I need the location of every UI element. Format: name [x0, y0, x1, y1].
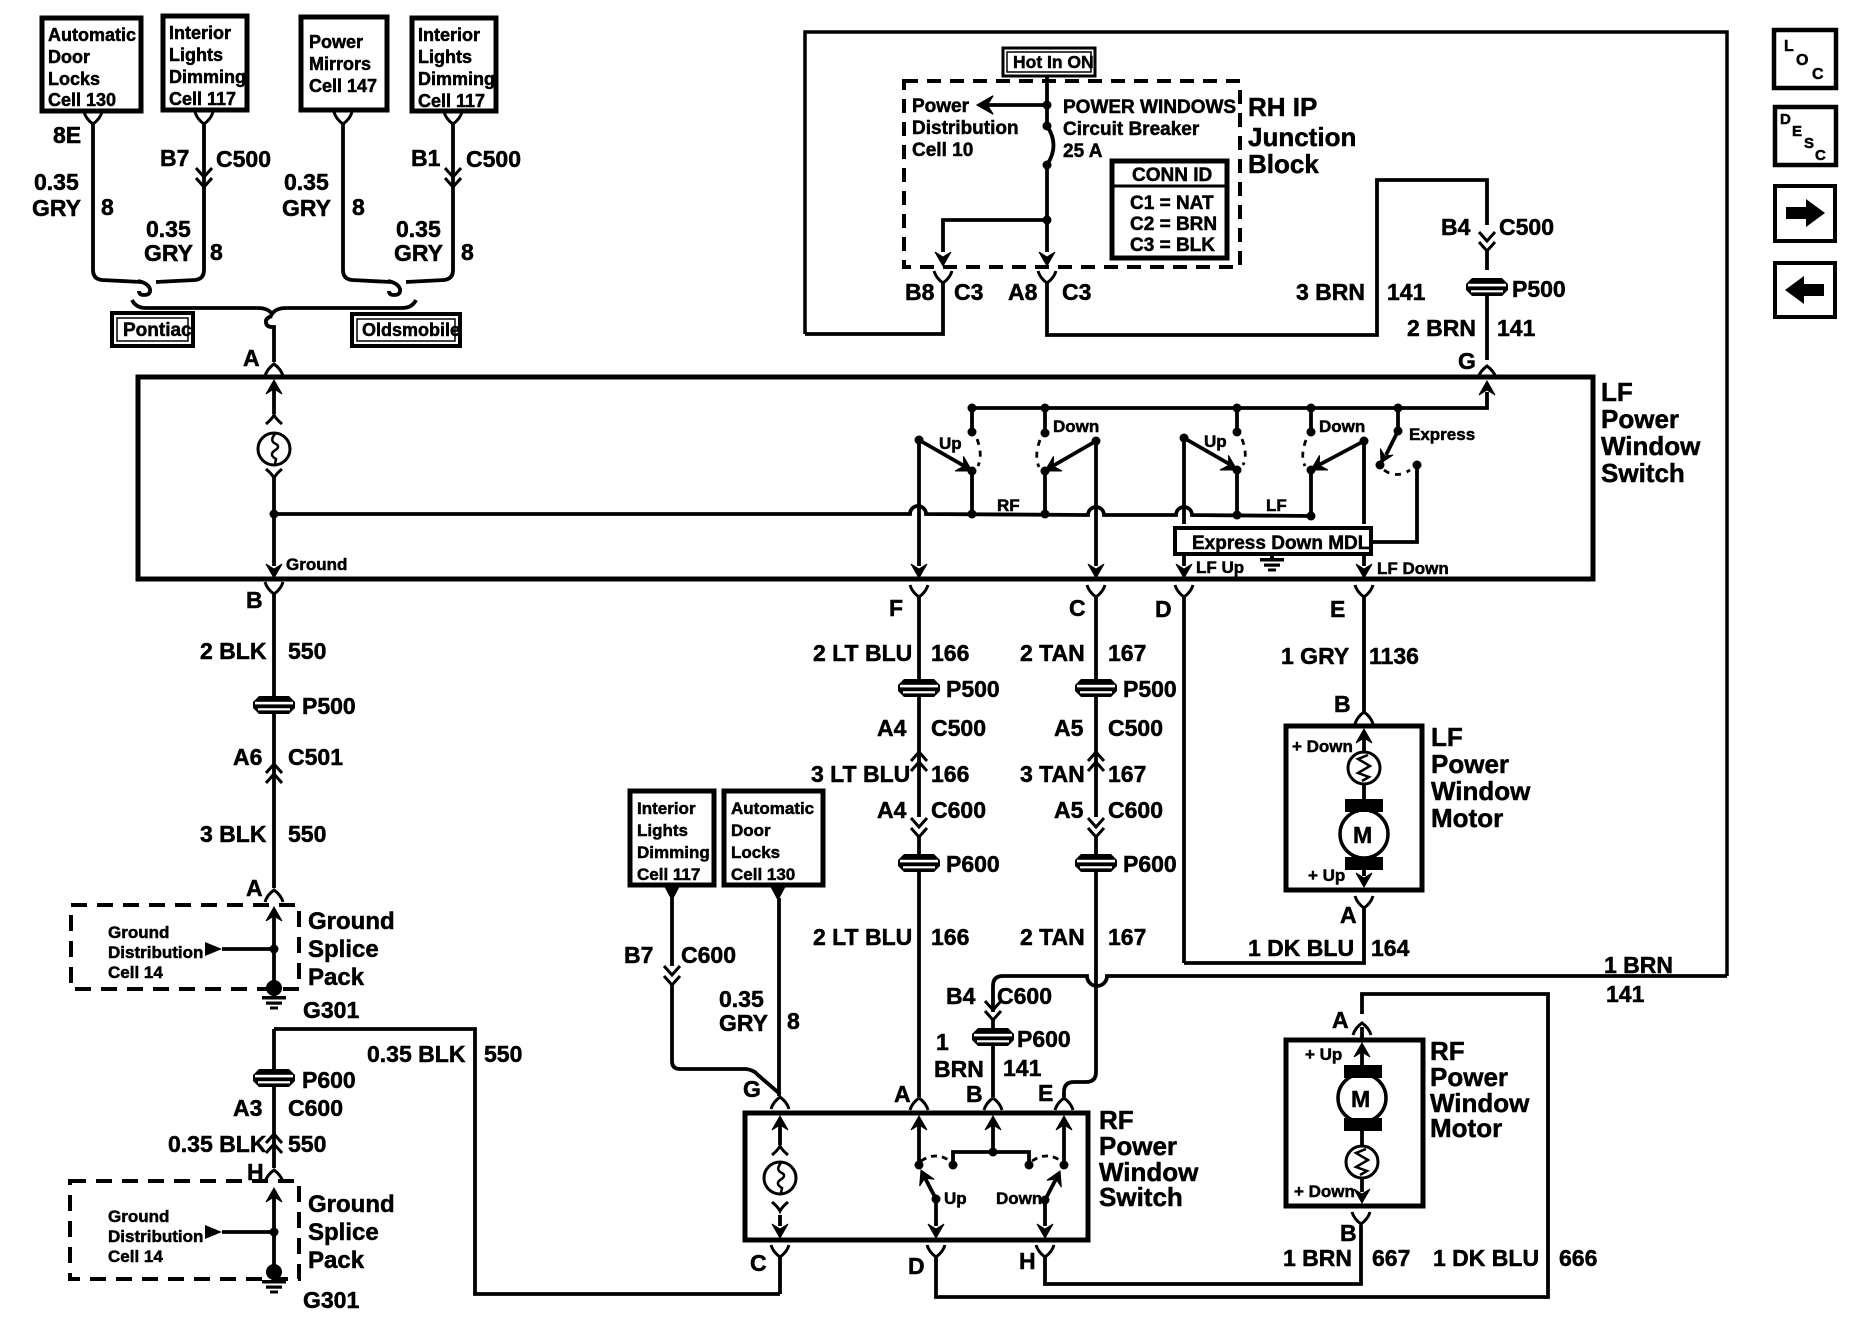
svg-text:B: B [966, 1081, 983, 1107]
svg-text:550: 550 [288, 638, 326, 664]
RF motor internals [1294, 1043, 1386, 1203]
pin B into RF switch [966, 1081, 1002, 1152]
wire: 8E 0.35 GRY 8 (from Automatic Door Locks) [32, 112, 141, 282]
svg-text:Interior: Interior [418, 25, 480, 45]
svg-text:2 LT BLU: 2 LT BLU [813, 640, 912, 666]
svg-text:0.35: 0.35 [34, 169, 79, 195]
svg-text:C600: C600 [288, 1095, 343, 1121]
LF motor internals [1292, 729, 1388, 887]
svg-text:B7: B7 [624, 942, 653, 968]
box: Interior Lights Dimming Cell 117 (left) [163, 16, 247, 110]
svg-text:C600: C600 [997, 983, 1052, 1009]
box: RF Power Window Motor [1286, 1036, 1530, 1206]
ground G301 (lower) [262, 1264, 359, 1313]
svg-text:Pack: Pack [308, 1247, 365, 1274]
splice P500 (C column) [1075, 676, 1177, 702]
svg-text:A: A [894, 1081, 911, 1107]
svg-text:P600: P600 [946, 851, 1000, 877]
connector A3 C600 [233, 1087, 343, 1153]
svg-text:0.35 BLK: 0.35 BLK [367, 1041, 466, 1067]
RF switch internal bar [949, 1148, 1034, 1170]
splice P600 (B column) [936, 1026, 1071, 1055]
svg-text:0.35: 0.35 [146, 216, 191, 242]
svg-text:Down: Down [1319, 417, 1365, 436]
svg-text:Ground: Ground [108, 1207, 169, 1226]
svg-text:167: 167 [1108, 924, 1146, 950]
ground wire + label inside LF switch [266, 510, 347, 579]
pin B below LF switch [246, 582, 283, 613]
icon: forward arrow button [1775, 186, 1835, 241]
splice P600 (C column) [1075, 851, 1177, 877]
pin A into RF switch [894, 1081, 928, 1170]
svg-text:S: S [1804, 135, 1814, 152]
svg-text:Dimming: Dimming [169, 67, 246, 87]
svg-text:Pontiac: Pontiac [123, 320, 192, 341]
svg-text:C: C [1815, 147, 1826, 164]
Express switch [1371, 404, 1475, 543]
svg-text:C600: C600 [1108, 797, 1163, 823]
box: Express Down MDL [1175, 528, 1371, 554]
svg-text:Lights: Lights [169, 45, 223, 65]
svg-text:A5: A5 [1054, 715, 1084, 741]
icon: DESC button [1775, 107, 1836, 165]
svg-text:Cell 117: Cell 117 [637, 865, 700, 884]
svg-text:0.35: 0.35 [284, 169, 329, 195]
svg-text:Interior: Interior [169, 23, 231, 43]
svg-text:C500: C500 [466, 146, 521, 172]
svg-text:+ Down: + Down [1292, 737, 1353, 756]
svg-text:C500: C500 [931, 715, 986, 741]
svg-text:O: O [1796, 52, 1808, 69]
svg-text:P600: P600 [302, 1067, 356, 1093]
svg-text:+ Up: + Up [1308, 866, 1345, 885]
svg-text:LF: LF [1266, 496, 1287, 515]
svg-text:Ground: Ground [286, 555, 347, 574]
svg-text:A: A [1332, 1007, 1349, 1033]
svg-text:Splice: Splice [308, 936, 379, 963]
svg-text:Up: Up [939, 434, 962, 453]
svg-text:G301: G301 [303, 997, 359, 1023]
svg-text:1 DK BLU: 1 DK BLU [1248, 935, 1354, 961]
svg-text:GRY: GRY [32, 195, 81, 221]
svg-text:A4: A4 [877, 715, 907, 741]
svg-text:B: B [1340, 1220, 1357, 1246]
wire: 3 LT BLU 166 [811, 753, 969, 817]
svg-text:F: F [889, 595, 903, 621]
dashed box: Ground Splice Pack 1 / Ground Distribution Cell 14 [71, 905, 299, 989]
RF switch Down contact [996, 1156, 1067, 1238]
wire: 3 BRN 141 from A8 [1047, 180, 1487, 335]
svg-text:+ Down: + Down [1294, 1182, 1355, 1201]
wire labels: 1 BRN 667 / 1 DK BLU 666 [1283, 1245, 1597, 1271]
svg-text:Circuit Breaker: Circuit Breaker [1063, 119, 1200, 140]
svg-text:667: 667 [1372, 1245, 1410, 1271]
svg-text:LF: LF [1601, 377, 1633, 407]
svg-text:Automatic: Automatic [731, 799, 814, 818]
svg-text:LF Down: LF Down [1377, 559, 1449, 578]
svg-text:1136: 1136 [1369, 643, 1419, 669]
pin A8 C3 [1008, 271, 1091, 305]
internal top bus of LF switch [972, 381, 1495, 408]
svg-text:P500: P500 [302, 693, 356, 719]
svg-text:P500: P500 [946, 676, 1000, 702]
svg-text:167: 167 [1108, 640, 1146, 666]
svg-text:G: G [1458, 348, 1476, 374]
lamp: illumination bulb LF switch [258, 433, 290, 566]
pin A below LF motor / wire 1 DK BLU 164 [1184, 896, 1410, 963]
svg-text:Oldsmobile: Oldsmobile [362, 320, 460, 340]
wire: 0.35 BLK 550 S-path from RF switch C [274, 1029, 780, 1294]
text: RF Power Window Switch [1099, 1105, 1199, 1212]
brace collecting Pontiac/Oldsmobile variants [132, 300, 416, 314]
wire: 2 LT BLU 166 (F column top) [813, 597, 969, 679]
svg-text:8: 8 [101, 194, 114, 220]
svg-text:164: 164 [1371, 935, 1410, 961]
svg-text:550: 550 [288, 821, 326, 847]
svg-text:3 LT BLU: 3 LT BLU [811, 761, 910, 787]
wire D column from LF switch to motor [1182, 597, 1186, 963]
text: Ground Splice Pack 2 [308, 1191, 395, 1274]
svg-text:Dimming: Dimming [418, 69, 495, 89]
box: Automatic Door Locks Cell 130 [42, 18, 141, 111]
svg-text:Cell 130: Cell 130 [731, 865, 795, 884]
box: LF Power Window Switch [138, 377, 1593, 579]
ground G301 (upper) [262, 980, 359, 1023]
pin D below RF switch [908, 994, 1548, 1297]
pin G into RF switch [743, 1076, 789, 1145]
svg-text:M: M [1351, 1086, 1370, 1112]
svg-text:C600: C600 [931, 797, 986, 823]
wire: 0.35 GRY 8 (from Automatic Door Locks middle) [719, 886, 800, 1096]
svg-text:C500: C500 [216, 146, 271, 172]
entry arrow A into switch [266, 380, 282, 424]
wire: 0.35 BLK 550 (lower) [168, 1131, 326, 1168]
svg-text:Distribution: Distribution [108, 1227, 203, 1246]
svg-text:D: D [1780, 111, 1791, 128]
pin C below RF switch [750, 1245, 789, 1294]
splice P500 (left column) [253, 693, 356, 719]
icon: LOC button [1774, 30, 1836, 88]
dashed box: Ground Splice Pack 2 / Ground Distribution Cell 14 [70, 1181, 299, 1279]
svg-text:B4: B4 [1441, 214, 1471, 240]
svg-text:P600: P600 [1017, 1026, 1071, 1052]
svg-text:Motor: Motor [1430, 1113, 1502, 1143]
svg-text:B: B [1334, 691, 1351, 717]
svg-text:CONN ID: CONN ID [1132, 165, 1212, 186]
svg-text:C: C [1812, 66, 1824, 83]
arrow to Power Distribution [977, 96, 1047, 114]
svg-text:Hot In ON: Hot In ON [1013, 52, 1094, 72]
svg-text:A: A [243, 345, 260, 371]
svg-text:C1 = NAT: C1 = NAT [1130, 193, 1214, 214]
svg-text:Switch: Switch [1601, 458, 1685, 488]
text: LF Power Window Switch [1601, 377, 1701, 488]
text: POWER WINDOWS Circuit Breaker 25 A [1063, 97, 1236, 162]
circuit breaker CB (25A) [1043, 76, 1054, 220]
svg-text:A: A [246, 875, 263, 901]
svg-text:0.35: 0.35 [396, 216, 441, 242]
label box: Pontiac [112, 313, 193, 346]
svg-text:D: D [1155, 596, 1172, 622]
svg-text:2 BLK: 2 BLK [200, 638, 267, 664]
svg-text:A: A [1340, 902, 1357, 928]
svg-text:H: H [1019, 1248, 1036, 1274]
svg-text:141: 141 [1497, 315, 1536, 341]
connector A4 C600 [877, 797, 986, 854]
text: RH IP Junction Block [1248, 92, 1356, 179]
connector A5 C500 [1054, 697, 1163, 771]
wire: 1 BRN 141 (B column) to RF switch B [934, 1046, 1042, 1097]
ground symbol under Express Down MDL [1260, 554, 1284, 572]
LF Up switch (LF switch internals) [1180, 404, 1246, 520]
pin D below LF switch [1155, 585, 1193, 622]
svg-text:Pack: Pack [308, 964, 365, 991]
lamp RF switch [764, 1146, 796, 1238]
svg-text:3 BRN: 3 BRN [1296, 279, 1365, 305]
svg-text:2 LT BLU: 2 LT BLU [813, 924, 912, 950]
svg-text:166: 166 [931, 640, 969, 666]
CONN ID table [1112, 161, 1227, 258]
svg-text:141: 141 [1003, 1055, 1042, 1081]
svg-text:167: 167 [1108, 761, 1146, 787]
ground bus inside LF switch with hops [274, 506, 1311, 516]
svg-text:B4: B4 [946, 983, 976, 1009]
svg-text:C501: C501 [288, 744, 343, 770]
svg-text:Cell 10: Cell 10 [912, 140, 973, 161]
svg-text:666: 666 [1559, 1245, 1597, 1271]
svg-text:G301: G301 [303, 1287, 359, 1313]
svg-text:E: E [1330, 596, 1345, 622]
box: Automatic Door Locks Cell 130 (middle) [724, 791, 823, 885]
svg-text:Up: Up [944, 1189, 967, 1208]
svg-text:2 BRN: 2 BRN [1407, 315, 1476, 341]
splice P600 (left column) [253, 1067, 356, 1093]
svg-text:C3: C3 [1062, 279, 1091, 305]
svg-text:P500: P500 [1512, 276, 1566, 302]
splice joint right pair [388, 281, 400, 295]
svg-text:BRN: BRN [934, 1056, 984, 1082]
svg-text:P500: P500 [1123, 676, 1177, 702]
svg-text:B7: B7 [160, 145, 189, 171]
label box: Oldsmobile [352, 314, 460, 346]
svg-text:8: 8 [352, 194, 365, 220]
text: Ground Splice Pack 1 [308, 908, 395, 991]
connector A4 C500 [877, 697, 986, 771]
svg-text:A8: A8 [1008, 279, 1038, 305]
wire: 0.35 GRY 8 (from Power Mirrors) [282, 112, 391, 282]
svg-text:550: 550 [288, 1131, 326, 1157]
svg-text:Cell 130: Cell 130 [48, 90, 116, 110]
svg-text:A6: A6 [233, 744, 262, 770]
svg-text:GRY: GRY [144, 240, 193, 266]
RF Up switch (LF switch internals) [915, 404, 981, 519]
connector B4 C500 [1441, 214, 1554, 270]
svg-text:B: B [246, 587, 263, 613]
wire: 2 BLK 550 [200, 594, 326, 696]
svg-text:3 TAN: 3 TAN [1020, 761, 1085, 787]
svg-text:B1: B1 [411, 145, 441, 171]
svg-text:Cell 117: Cell 117 [169, 89, 236, 109]
svg-text:A4: A4 [877, 797, 907, 823]
svg-text:C3: C3 [954, 279, 983, 305]
svg-text:Motor: Motor [1431, 803, 1503, 833]
splice P500 (right) [1466, 276, 1566, 360]
outer junction block wire box [805, 32, 1727, 976]
splice P600 (F column) [898, 851, 1000, 877]
text: Power Distribution Cell 10 [912, 96, 1019, 161]
box: Interior Lights Dimming Cell 117 (right) [412, 18, 496, 111]
svg-text:G: G [743, 1076, 761, 1102]
svg-text:0.35: 0.35 [719, 986, 764, 1012]
svg-text:Up: Up [1204, 432, 1227, 451]
svg-text:A5: A5 [1054, 797, 1084, 823]
svg-text:Ground: Ground [108, 923, 169, 942]
wire: 2 TAN 167 (lower) to RF switch E with jog [1020, 872, 1146, 1097]
svg-text:Window: Window [1601, 431, 1701, 461]
svg-text:GRY: GRY [394, 240, 443, 266]
pin E into RF switch [1038, 1080, 1073, 1170]
svg-text:Ground: Ground [308, 908, 395, 935]
svg-text:141: 141 [1387, 279, 1426, 305]
svg-text:C600: C600 [681, 942, 736, 968]
RF Down switch [1037, 404, 1101, 519]
svg-text:RH IP: RH IP [1248, 92, 1317, 122]
svg-text:Lights: Lights [637, 821, 688, 840]
svg-text:166: 166 [931, 924, 969, 950]
wire: 3 TAN 167 [1020, 753, 1146, 817]
svg-text:Door: Door [48, 47, 90, 67]
wire: B1 C500 0.35 GRY 8 (from Interior Lights Dimming right) [394, 112, 521, 282]
svg-text:Cell 117: Cell 117 [418, 91, 485, 111]
svg-text:Distribution: Distribution [108, 943, 203, 962]
svg-text:Lights: Lights [418, 47, 472, 67]
box: Interior Lights Dimming Cell 117 (middle) [630, 791, 714, 885]
svg-text:1 BRN: 1 BRN [1604, 952, 1673, 978]
svg-text:GRY: GRY [282, 195, 331, 221]
icon: back arrow button [1775, 263, 1835, 317]
svg-text:Block: Block [1248, 149, 1319, 179]
svg-text:141: 141 [1606, 981, 1645, 1007]
svg-text:Power: Power [309, 32, 363, 52]
connector B4 C600 (B column) [946, 983, 1052, 1028]
svg-text:3 BLK: 3 BLK [200, 821, 267, 847]
svg-text:M: M [1353, 822, 1372, 848]
svg-text:166: 166 [931, 761, 969, 787]
svg-text:Cell 147: Cell 147 [309, 76, 377, 96]
node A into ground splice pack 1 [246, 875, 283, 986]
svg-text:Interior: Interior [637, 799, 696, 818]
junction + branch to B8 [935, 216, 1055, 267]
svg-text:C3 = BLK: C3 = BLK [1130, 235, 1215, 256]
box: RF Power Window Switch [745, 1113, 1088, 1240]
svg-text:Down: Down [1053, 417, 1099, 436]
svg-text:Mirrors: Mirrors [309, 54, 371, 74]
svg-text:Splice: Splice [308, 1219, 379, 1246]
wire E column through Express Down MDL [1356, 441, 1449, 578]
svg-text:Cell 14: Cell 14 [108, 963, 163, 982]
svg-text:2 TAN: 2 TAN [1020, 924, 1085, 950]
svg-text:C500: C500 [1108, 715, 1163, 741]
svg-text:+ Up: + Up [1305, 1045, 1342, 1064]
svg-text:Down: Down [996, 1189, 1042, 1208]
svg-text:C2 = BRN: C2 = BRN [1130, 214, 1217, 235]
svg-text:Dimming: Dimming [637, 843, 710, 862]
svg-text:Power: Power [1601, 404, 1679, 434]
svg-text:550: 550 [484, 1041, 522, 1067]
connector A5 C600 [1054, 797, 1163, 854]
svg-text:Locks: Locks [731, 843, 780, 862]
node H into ground splice pack 2 [247, 1159, 283, 1270]
svg-text:1 DK BLU: 1 DK BLU [1433, 1245, 1539, 1271]
svg-text:Automatic: Automatic [48, 25, 136, 45]
svg-text:B8: B8 [905, 279, 935, 305]
svg-text:C: C [750, 1250, 767, 1276]
svg-text:2 TAN: 2 TAN [1020, 640, 1085, 666]
LF Down switch [1303, 404, 1369, 521]
splice P500 (F column) [898, 676, 1000, 702]
wire: 2 BRN 141 to G [1407, 315, 1536, 378]
pin A above RF motor [1332, 1007, 1371, 1040]
connector A6 C501 [233, 714, 343, 783]
svg-text:Ground: Ground [308, 1191, 395, 1218]
pin B8 C3 [805, 271, 983, 334]
svg-text:8E: 8E [53, 122, 81, 148]
svg-text:25 A: 25 A [1063, 141, 1103, 162]
svg-text:Junction: Junction [1248, 122, 1356, 152]
pin F below LF switch [889, 585, 928, 621]
wire: 2 TAN 167 (C column top) [1020, 597, 1146, 679]
svg-text:1: 1 [936, 1029, 949, 1055]
RF switch Up contact [914, 1156, 967, 1238]
box: LF Power Window Motor [1286, 722, 1531, 890]
svg-text:8: 8 [210, 239, 223, 265]
svg-text:Express: Express [1409, 425, 1475, 444]
pin E below LF switch [1330, 585, 1373, 622]
svg-text:Distribution: Distribution [912, 118, 1019, 139]
dashed box: RH IP Junction Block [904, 81, 1240, 267]
svg-text:L: L [1784, 38, 1794, 55]
svg-text:8: 8 [787, 1008, 800, 1034]
svg-text:LF Up: LF Up [1196, 558, 1244, 577]
pin B below RF motor [1340, 1212, 1370, 1246]
svg-text:Power: Power [1431, 749, 1509, 779]
svg-text:A3: A3 [233, 1095, 262, 1121]
node A wire into LF switch [243, 316, 283, 376]
svg-text:Power: Power [912, 96, 970, 117]
wire: 1 GRY 1136 from LF switch E [1281, 597, 1419, 724]
wire D column through Express Down MDL [1176, 438, 1244, 578]
svg-text:D: D [908, 1253, 925, 1279]
svg-text:1 GRY: 1 GRY [1281, 643, 1349, 669]
svg-text:Locks: Locks [48, 69, 100, 89]
svg-text:0.35 BLK: 0.35 BLK [168, 1131, 267, 1157]
pin C below LF switch [1069, 585, 1105, 621]
wire F column inside switch [911, 440, 927, 578]
wire: 3 BLK 550 [200, 765, 326, 888]
svg-text:1 BRN: 1 BRN [1283, 1245, 1352, 1271]
svg-text:Switch: Switch [1099, 1182, 1183, 1212]
svg-text:Door: Door [731, 821, 771, 840]
svg-text:Window: Window [1431, 776, 1531, 806]
box: Power Mirrors Cell 147 [301, 17, 387, 110]
svg-text:E: E [1038, 1080, 1053, 1106]
wire C column inside switch [1088, 441, 1104, 578]
wire: B7 C500 0.35 GRY 8 (from Interior Lights Dimming left) [144, 112, 271, 282]
wire: 1 BRN 141 horizontal from junction block [993, 952, 1727, 1012]
svg-text:E: E [1792, 123, 1802, 140]
svg-text:C500: C500 [1499, 214, 1554, 240]
splice joint left pair [138, 281, 150, 295]
